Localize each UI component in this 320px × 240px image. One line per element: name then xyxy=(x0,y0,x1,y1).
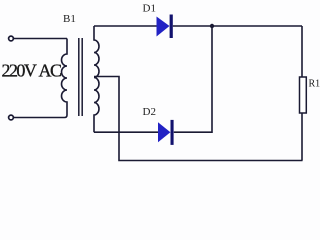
transformer core xyxy=(78,38,80,116)
wire: top rail, secondary top to D1 anode xyxy=(94,25,157,27)
node: junction of D1/D2 cathodes xyxy=(210,24,214,28)
terminal bottom-left xyxy=(9,115,14,120)
terminal top-left xyxy=(9,36,14,41)
resistor R1 xyxy=(300,77,307,113)
diode D1 xyxy=(157,15,173,39)
transformer B1 primary winding xyxy=(14,39,67,118)
svg-text:D1: D1 xyxy=(143,2,156,14)
svg-text:R1: R1 xyxy=(309,79,320,90)
wire: R1 bottom to bottom rail xyxy=(301,113,303,161)
transformer secondary winding xyxy=(94,26,99,132)
wire: junction down to D2 cathode xyxy=(174,26,212,132)
wire: secondary bottom to D2 anode xyxy=(94,131,158,133)
diode D2 xyxy=(158,120,174,145)
wire: top terminal to primary xyxy=(14,38,67,40)
svg-text:220V AC: 220V AC xyxy=(2,61,62,81)
svg-text:B1: B1 xyxy=(63,13,76,25)
wire: D1 cathode to top-right corner xyxy=(173,25,302,27)
svg-text:D2: D2 xyxy=(143,106,156,118)
wire: right side down to R1 xyxy=(301,26,303,77)
wire: center tap to bottom rail xyxy=(94,77,303,161)
